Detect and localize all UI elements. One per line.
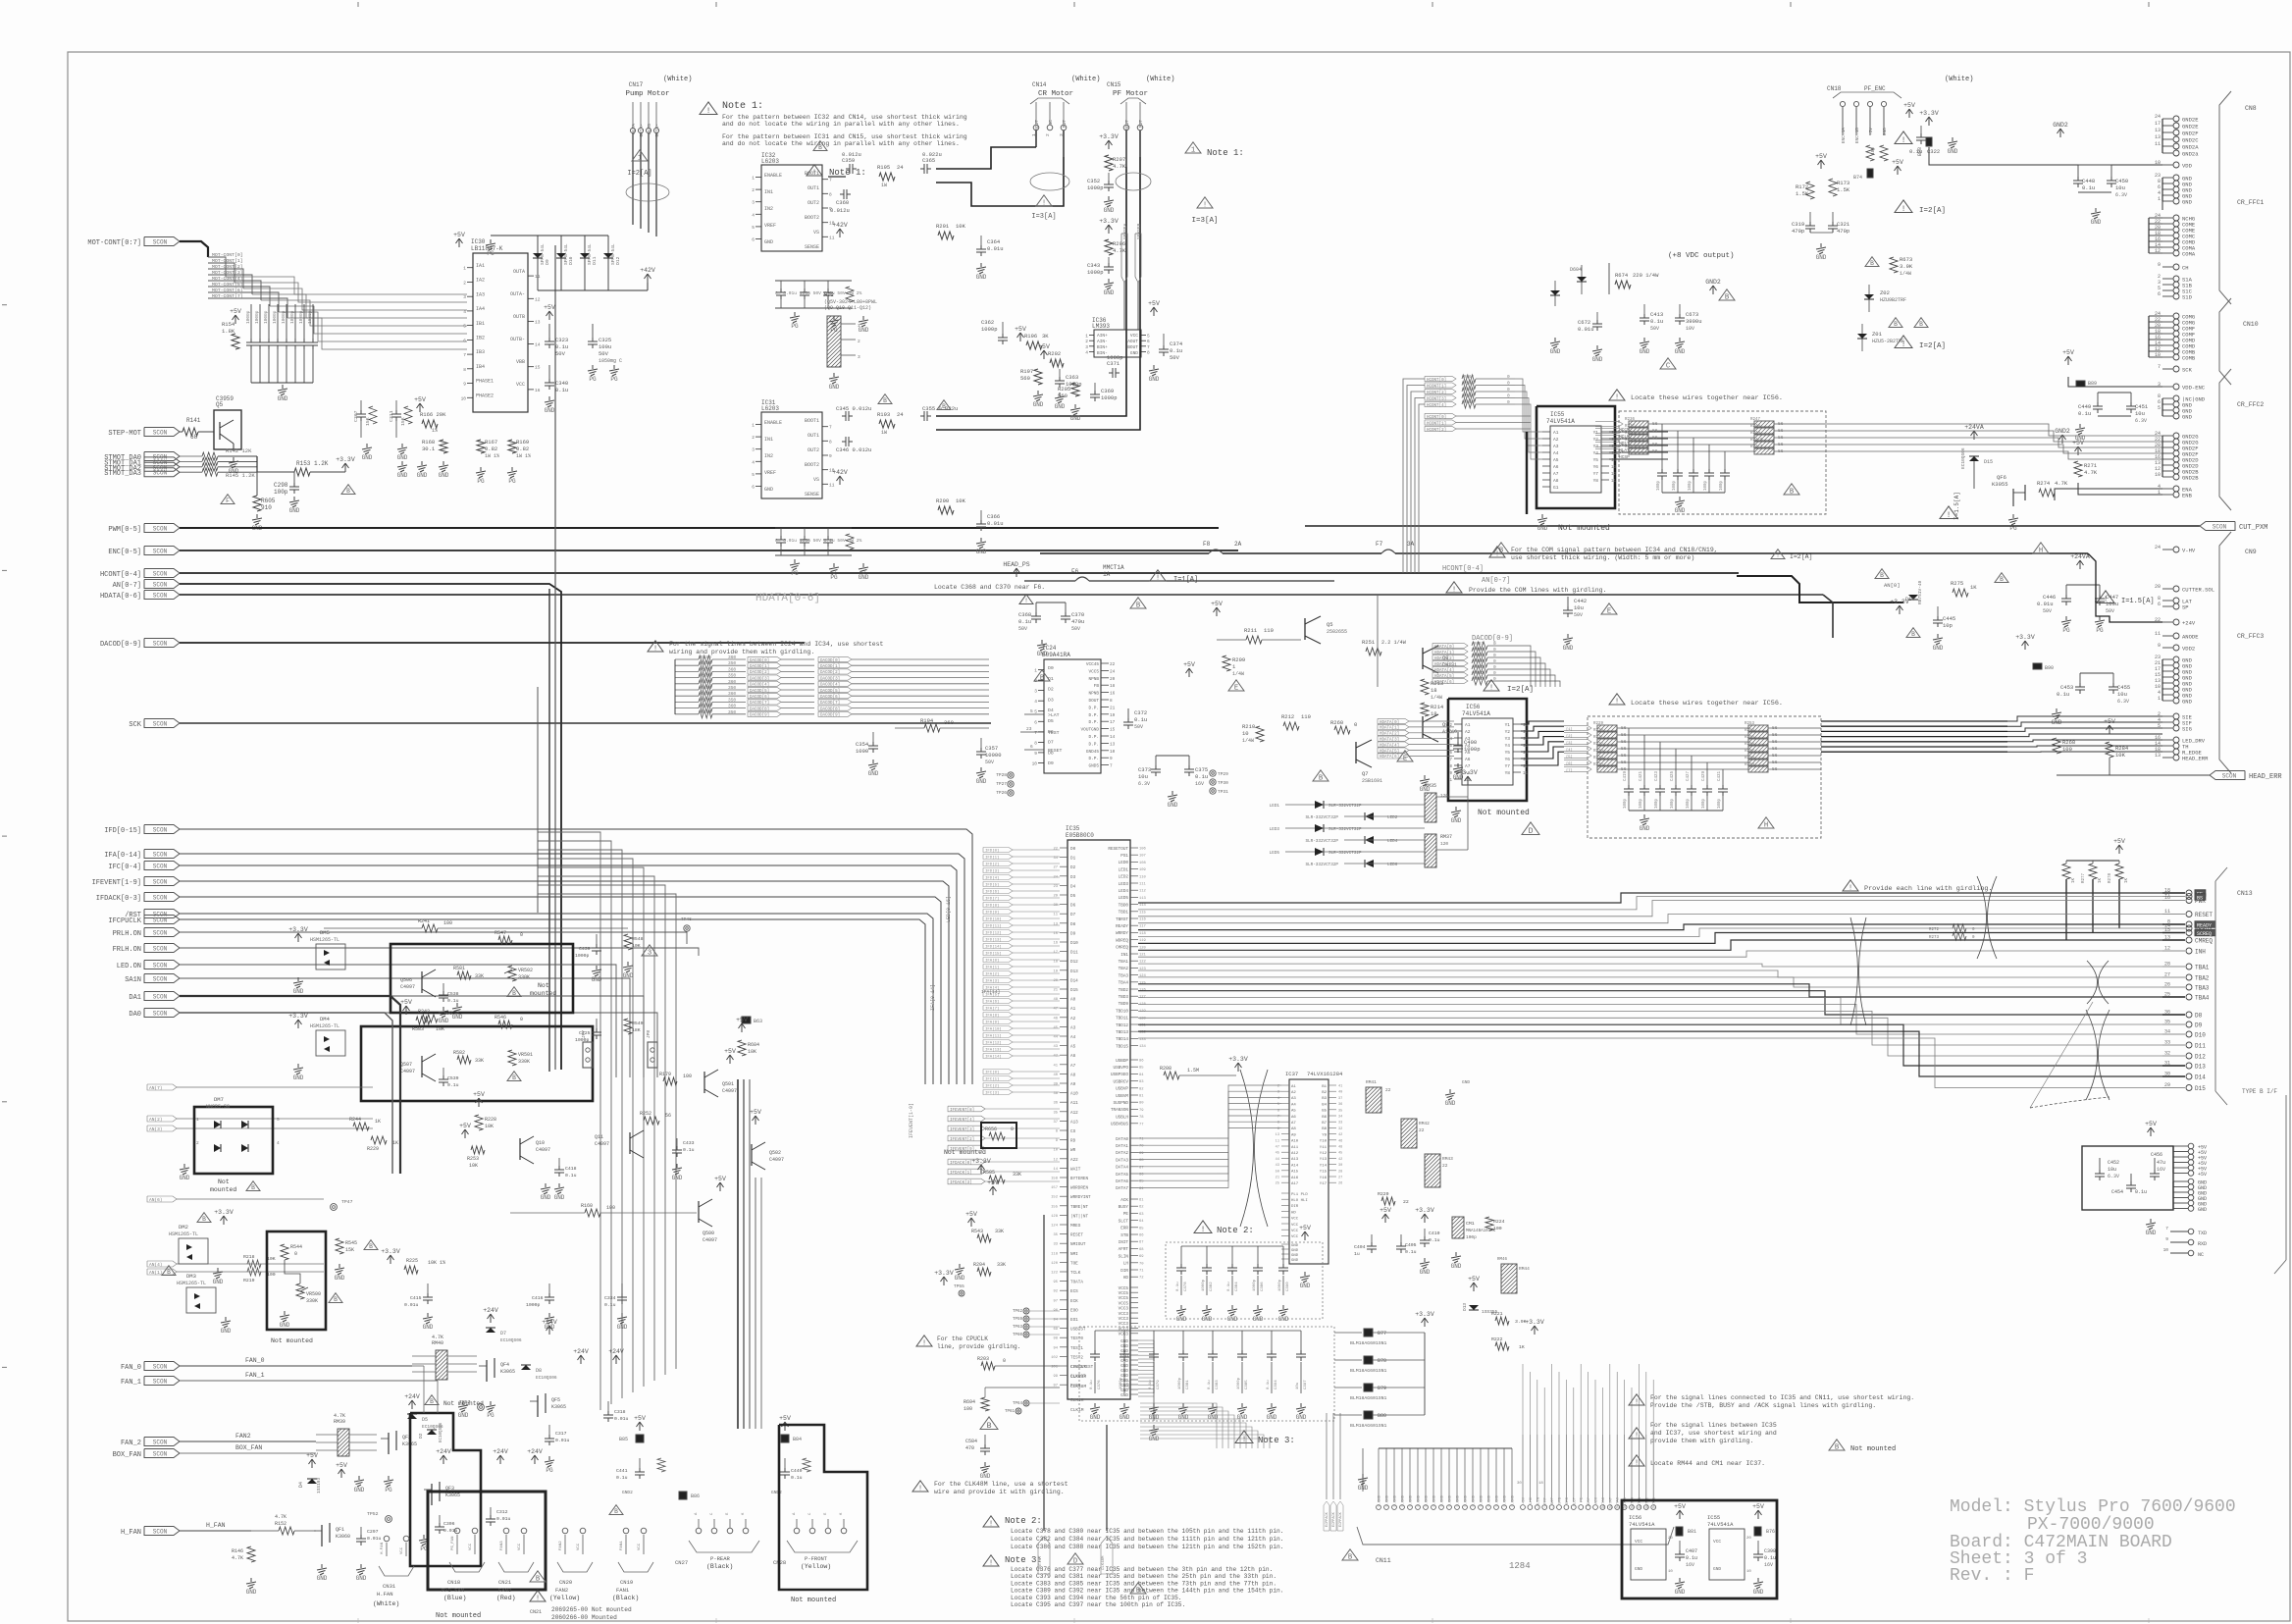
svg-text:D13: D13 — [1070, 969, 1078, 974]
svg-text:VDD: VDD — [2182, 163, 2193, 170]
capacitor C357 10000 50V — [980, 738, 982, 748]
svg-text:3: 3 — [648, 950, 651, 958]
svg-text:LED3: LED3 — [1270, 827, 1280, 832]
svg-text:IFA[1]: IFA[1] — [985, 966, 999, 970]
svg-text:GND2E: GND2E — [2182, 117, 2199, 124]
svg-text:C440: C440 — [791, 1468, 803, 1474]
svg-text:SCON: SCON — [153, 930, 168, 937]
svg-text:C448: C448 — [2082, 178, 2095, 184]
svg-text:LED2: LED2 — [1387, 815, 1398, 820]
svg-text:CN19: CN19 — [620, 1579, 633, 1586]
svg-text:LH0: LH0 — [1530, 1496, 1534, 1504]
svg-text:EC10QS06: EC10QS06 — [536, 1375, 557, 1381]
svg-text:158: 158 — [1051, 1178, 1059, 1181]
svg-text:GND: GND — [1090, 1414, 1101, 1421]
svg-text:GND: GND — [1296, 1414, 1307, 1421]
svg-text:D.P.: D.P. — [1088, 735, 1099, 740]
svg-text:R673: R673 — [1900, 256, 1912, 263]
svg-text:SCON: SCON — [153, 1379, 168, 1386]
svg-text:IA3: IA3 — [476, 291, 485, 297]
svg-text:4: 4 — [277, 1140, 280, 1146]
svg-text:TBA3: TBA3 — [1119, 973, 1129, 978]
svg-text:81: 81 — [1139, 1095, 1144, 1099]
svg-text:28: 28 — [1338, 1170, 1342, 1174]
svg-text:2502655: 2502655 — [1327, 629, 1347, 635]
svg-text:TRANSON: TRANSON — [1111, 1108, 1128, 1113]
svg-text:IFA[0]: IFA[0] — [985, 959, 999, 964]
wire IFDACK[0-3] bus — [180, 897, 941, 1084]
svg-text:A13: A13 — [1070, 1120, 1078, 1125]
svg-text:+5V: +5V — [714, 1176, 726, 1182]
svg-text:35: 35 — [1053, 1233, 1058, 1237]
svg-text:GND: GND — [1592, 356, 1603, 363]
svg-text:VDD-ENC: VDD-ENC — [2182, 385, 2206, 392]
svg-text:TP29: TP29 — [1218, 771, 1228, 777]
net ellipse I=3(A) PF — [1116, 173, 1151, 190]
svg-text:+5V: +5V — [736, 1017, 748, 1023]
svg-text:C425: C425 — [1671, 770, 1675, 781]
svg-text:10: 10 — [2163, 1247, 2169, 1253]
svg-text:IFD[11]: IFD[11] — [985, 924, 1002, 929]
svg-text:39: 39 — [1053, 1083, 1058, 1087]
svg-text:D4: D4 — [1070, 884, 1076, 889]
svg-text:D7: D7 — [500, 1331, 506, 1336]
svg-text:!: ! — [1776, 552, 1780, 559]
net HEAD_PS arrow — [1016, 569, 1017, 577]
svg-text:0.1u: 0.1u — [1764, 1555, 1776, 1561]
svg-text:A7: A7 — [1070, 1064, 1076, 1069]
svg-text:15: 15 — [535, 365, 541, 371]
resistor R206 4.7K + C343 1000p — [1105, 239, 1113, 255]
svg-text:R694: R694 — [964, 1399, 975, 1405]
warning triangle B in box A — [1784, 484, 1799, 495]
svg-text:112: 112 — [1139, 890, 1147, 894]
svg-text:33: 33 — [2164, 1040, 2170, 1046]
svg-text:A11: A11 — [1070, 1101, 1078, 1106]
svg-text:DACOD[1]: DACOD[1] — [750, 664, 769, 669]
svg-text:Locate these wires together ne: Locate these wires together near IC56. — [1631, 700, 1783, 707]
svg-text:22: 22 — [1419, 1127, 1425, 1133]
power +5V NMI — [992, 1187, 994, 1195]
svg-text:FAN2: FAN2 — [555, 1587, 568, 1594]
svg-text:DACOD[8]: DACOD[8] — [820, 707, 840, 711]
svg-text:P.GND: P.GND — [1433, 1494, 1437, 1506]
svg-text:HDATA[1]: HDATA[1] — [1434, 651, 1454, 655]
svg-text:CR_FFC1: CR_FFC1 — [2237, 199, 2264, 206]
svg-text:5: 5 — [1030, 708, 1033, 714]
svg-text:C364: C364 — [987, 238, 1001, 245]
svg-text:IFD[5]: IFD[5] — [985, 883, 999, 888]
svg-text:TBD1: TBD1 — [1119, 911, 1129, 916]
svg-text:FAN_1: FAN_1 — [245, 1372, 265, 1379]
svg-text:5: 5 — [752, 472, 755, 478]
svg-text:!: ! — [1615, 699, 1619, 707]
svg-text:DACOD[0]: DACOD[0] — [820, 658, 840, 663]
svg-text:C306: C306 — [443, 1521, 455, 1527]
svg-text:107: 107 — [1139, 855, 1146, 859]
svg-text:IA4: IA4 — [476, 306, 485, 312]
svg-text:111: 111 — [1139, 883, 1147, 887]
svg-text:!: ! — [1635, 1433, 1639, 1441]
note COM signal pattern — [1489, 547, 1505, 557]
wire AN bus — [180, 584, 561, 1070]
svg-text:CR_FFC2: CR_FFC2 — [2237, 401, 2264, 408]
svg-text:IC56: IC56 — [1629, 1514, 1641, 1521]
svg-text:R194: R194 — [920, 717, 934, 724]
capacitor C374 0.1u 50V — [1163, 334, 1165, 345]
svg-text:2: 2 — [196, 1140, 199, 1146]
transistor Q5 C3959 — [214, 410, 241, 449]
svg-text:VBB: VBB — [516, 359, 525, 365]
svg-text:DA0: DA0 — [129, 1011, 141, 1019]
svg-text:1284: 1284 — [1509, 1561, 1531, 1571]
svg-text:10K: 10K — [748, 1049, 756, 1055]
wire CN11 data bundle elbows — [1140, 1403, 1217, 1448]
svg-text:C370: C370 — [1071, 611, 1084, 618]
svg-text:TBD12: TBD12 — [1116, 1023, 1128, 1028]
svg-text:5: 5 — [277, 1117, 280, 1123]
svg-text:ECPPACK: ECPPACK — [1326, 1511, 1329, 1527]
svg-text:+5V: +5V — [459, 1123, 471, 1129]
svg-text:1W 1%: 1W 1% — [485, 453, 499, 459]
svg-text:3: 3 — [1034, 689, 1037, 695]
svg-text:IN1: IN1 — [764, 437, 773, 443]
capacitor C297 0.01u — [360, 1527, 362, 1535]
svg-text:Locate C395 and C397 near the: Locate C395 and C397 near the 100th pin … — [1011, 1601, 1185, 1608]
svg-text:DM3: DM3 — [186, 1273, 196, 1280]
svg-text:27: 27 — [2164, 972, 2170, 978]
capacitor C352 1000p — [1108, 173, 1110, 181]
svg-text:45: 45 — [1276, 1152, 1279, 1156]
svg-text:+5V: +5V — [1148, 300, 1160, 307]
svg-text:0.1u: 0.1u — [1405, 1249, 1417, 1255]
svg-text:HDATA[0-6]: HDATA[0-6] — [100, 593, 141, 601]
svg-text:TBA4: TBA4 — [2195, 995, 2210, 1002]
svg-text:152: 152 — [1051, 1196, 1059, 1200]
connector GND2G-GND2B pins — [2162, 435, 2173, 437]
svg-text:0: 0 — [1507, 374, 1510, 380]
capacitor C345 0.012u — [842, 415, 846, 417]
svg-text:OUTA: OUTA — [631, 124, 637, 134]
ground QF4 row — [462, 1401, 464, 1405]
svg-text:+3.3V: +3.3V — [288, 926, 308, 933]
svg-text:OUTB: OUTB — [647, 124, 652, 134]
resistor bank R664-R668 HCONT — [1425, 376, 1456, 381]
svg-text:1000p: 1000p — [1087, 269, 1104, 276]
ground C448 C450 — [2095, 208, 2097, 212]
svg-text:!: ! — [1901, 205, 1906, 214]
svg-text:SP: SP — [2182, 604, 2189, 611]
svg-text:1000: 1000 — [856, 748, 868, 755]
svg-text:R229: R229 — [1593, 722, 1604, 726]
svg-text:7: 7 — [2165, 1226, 2168, 1231]
svg-text:USBTST: USBTST — [1070, 1328, 1086, 1333]
resistor bank R657-R663 HDATA rows — [1432, 643, 1468, 648]
svg-text:For the signal lines between I: For the signal lines between IC35 — [1650, 1422, 1777, 1429]
svg-text:WRRDY: WRRDY — [1116, 931, 1128, 936]
svg-text:13: 13 — [1276, 1133, 1279, 1137]
svg-text:0.1u: 0.1u — [683, 1147, 695, 1153]
svg-text:+3.3V: +3.3V — [2015, 634, 2035, 641]
connector CN8 ground pins — [2162, 118, 2173, 120]
svg-text:VCC: VCC — [1635, 1539, 1642, 1545]
svg-text:Y8: Y8 — [1593, 478, 1599, 484]
svg-text:QF6: QF6 — [1997, 474, 2006, 481]
resistors R276 R277 R278 1K + +5V — [2118, 846, 2120, 854]
svg-text:1000p: 1000p — [526, 1302, 541, 1308]
note CLK48M girdling — [912, 1481, 928, 1492]
svg-text:82: 82 — [1139, 1087, 1144, 1091]
svg-text:Note 2:: Note 2: — [1217, 1226, 1254, 1235]
svg-text:+3.3V: +3.3V — [1228, 1056, 1248, 1063]
svg-text:HZU9B2TRF: HZU9B2TRF — [1880, 297, 1906, 303]
svg-text:C442: C442 — [1574, 598, 1587, 604]
svg-text:R2411: R2411 — [1750, 445, 1763, 449]
svg-text:100: 100 — [443, 1011, 452, 1017]
resistor R211 110 — [1246, 636, 1262, 644]
resistor R154 1.8K — [232, 334, 239, 349]
capacitor C539 0.1u — [443, 1068, 444, 1075]
svg-text:TP57: TP57 — [459, 1399, 471, 1405]
node LAT SP pins — [2162, 600, 2173, 602]
svg-text:F: F — [226, 498, 230, 504]
svg-text:(Q9-Q10-Q11-Q12): (Q9-Q10-Q11-Q12) — [824, 305, 871, 311]
svg-text:63: 63 — [1139, 1213, 1144, 1217]
svg-text:C405: C405 — [1405, 1242, 1417, 1248]
svg-text:110: 110 — [1301, 713, 1311, 720]
resistor R141 68 — [180, 431, 182, 433]
svg-text:6: 6 — [1147, 339, 1150, 344]
connector CR_FFC2 bracket — [2219, 369, 2231, 510]
svg-text:1W: 1W — [881, 430, 887, 436]
svg-text:50V: 50V — [1018, 626, 1027, 632]
resistor R201 10K + C364 — [938, 232, 954, 239]
svg-text:A8: A8 — [1553, 478, 1559, 484]
svg-text:GND: GND — [1753, 1589, 1764, 1596]
svg-text:(White): (White) — [1945, 76, 1973, 83]
connector CR_FFC3 bracket — [2219, 532, 2231, 773]
fet QF2 K3065 — [388, 1433, 390, 1454]
resistor R284 10K + +5V — [2109, 726, 2110, 734]
svg-text:PF Motor: PF Motor — [1113, 90, 1148, 98]
wire thick AN0 elbow feed — [1737, 576, 1903, 602]
svg-text:IFD[10]: IFD[10] — [985, 917, 1002, 922]
svg-text:1000p: 1000p — [1178, 1377, 1182, 1389]
svg-text:CLK48M: CLK48M — [1102, 1555, 1106, 1570]
svg-text:R212: R212 — [1281, 713, 1294, 720]
warning triangle B CLK — [980, 1417, 998, 1430]
svg-text:PG: PG — [791, 570, 799, 577]
svg-text:2A: 2A — [1234, 541, 1242, 548]
svg-text:D9: D9 — [1048, 760, 1054, 766]
wire IC55 outputs with labels — [1609, 431, 1668, 433]
svg-text:42: 42 — [1338, 1158, 1342, 1162]
svg-text:DACOD[1]: DACOD[1] — [820, 664, 840, 669]
svg-text:GND: GND — [397, 472, 408, 479]
svg-text:1.8K: 1.8K — [222, 328, 235, 335]
svg-text:D15: D15 — [1070, 988, 1078, 993]
power +5V VDD-ENC + B89 — [2067, 357, 2069, 365]
svg-text:IFCPUCLK: IFCPUCLK — [108, 917, 141, 925]
svg-text:B: B — [1725, 294, 1730, 302]
svg-text:NPNB: NPNB — [1088, 677, 1099, 682]
svg-text:12: 12 — [1523, 765, 1529, 769]
svg-text:1000p: 1000p — [307, 310, 313, 324]
svg-text:R258: R258 — [1745, 757, 1755, 760]
svg-text:MOT-CONT[7]: MOT-CONT[7] — [212, 293, 243, 299]
svg-text:84: 84 — [1139, 1074, 1144, 1077]
svg-text:GND: GND — [335, 1275, 345, 1282]
svg-text:R209: R209 — [1232, 656, 1245, 663]
svg-text:Locate C379 and C381 near IC35: Locate C379 and C381 near IC35 and betwe… — [1011, 1573, 1276, 1580]
svg-text:GND: GND — [623, 972, 634, 979]
svg-text:IC56: IC56 — [1466, 704, 1481, 710]
svg-text:62: 62 — [1139, 1206, 1144, 1210]
svg-text:MOT-CONT[1]: MOT-CONT[1] — [212, 258, 243, 264]
svg-text:56: 56 — [665, 1113, 671, 1119]
svg-text:OUT1: OUT1 — [807, 433, 819, 439]
svg-text:AN[0-7]: AN[0-7] — [1482, 577, 1510, 585]
svg-text:2069265-00 Not mounted: 2069265-00 Not mounted — [551, 1606, 632, 1613]
svg-text:12: 12 — [1611, 473, 1617, 477]
svg-text:C354: C354 — [856, 741, 869, 748]
svg-text:Y9: Y9 — [1322, 1133, 1327, 1137]
svg-text:100p: 100p — [1466, 1234, 1477, 1240]
svg-text:IC35: IC35 — [1066, 825, 1080, 832]
svg-text:5: 5 — [1147, 334, 1150, 340]
svg-text:C449: C449 — [2078, 403, 2091, 410]
svg-text:R544: R544 — [290, 1244, 302, 1250]
svg-text:B88: B88 — [1917, 147, 1923, 156]
svg-text:AN(2): AN(2) — [149, 1117, 163, 1123]
svg-text:470p: 470p — [1837, 228, 1849, 235]
svg-text:HEAD_ERR: HEAD_ERR — [2249, 773, 2282, 781]
node SCK pin — [2162, 368, 2173, 370]
svg-text:15: 15 — [1611, 452, 1617, 456]
svg-text:R208: R208 — [1160, 1066, 1172, 1072]
capacitor CM1 MNA14BA101RK 100p — [1452, 1217, 1464, 1238]
svg-text:I=2[A]: I=2[A] — [1919, 207, 1946, 215]
svg-text:+24V: +24V — [404, 1393, 420, 1400]
svg-text:72: 72 — [1139, 1277, 1144, 1281]
resistor network RM35 120 — [1425, 793, 1436, 822]
svg-text:R205: R205 — [1058, 386, 1070, 393]
svg-text:560: 560 — [1058, 393, 1068, 399]
svg-text:R183: R183 — [701, 673, 711, 679]
svg-text:15: 15 — [1110, 728, 1116, 733]
ground C368 — [1041, 640, 1043, 644]
svg-text:ANODE: ANODE — [2182, 634, 2199, 641]
wire IFD[0-15] bus — [180, 829, 972, 1084]
svg-text:42: 42 — [1053, 1055, 1058, 1059]
svg-text:1000p: 1000p — [281, 310, 286, 324]
svg-text:OUTB-: OUTB- — [510, 337, 525, 342]
svg-text:C397: C397 — [1304, 1380, 1308, 1389]
svg-text:VCC: VCC — [518, 1543, 522, 1550]
svg-text:line, provide girdling.: line, provide girdling. — [937, 1343, 1020, 1350]
power +3.3V LED — [1467, 777, 1469, 785]
node OUT_PXM exit tag — [1305, 525, 2200, 527]
svg-text:NC: NC — [2198, 1252, 2204, 1258]
svg-text:USBVPO: USBVPO — [1114, 1066, 1129, 1071]
svg-text:MRES: MRES — [1070, 1224, 1081, 1229]
svg-text:B81: B81 — [1688, 1529, 1696, 1535]
connector CN11 1284 parallel port — [1378, 1448, 1380, 1502]
svg-text:34: 34 — [1053, 857, 1058, 861]
svg-text:74LV541A: 74LV541A — [1462, 710, 1490, 717]
capacitor C584 470 — [984, 1435, 986, 1444]
ground below R605 — [256, 514, 258, 518]
IC35 right pin field upper — [1130, 847, 1138, 849]
svg-text:H.FAN: H.FAN — [377, 1591, 393, 1598]
svg-text:TP60: TP60 — [1013, 1334, 1023, 1337]
IFA input tags at IC35 — [983, 958, 1013, 963]
svg-text:C4097: C4097 — [722, 1088, 737, 1094]
svg-text:FRLH.ON: FRLH.ON — [113, 946, 141, 954]
hatch RM44 22 — [1501, 1264, 1517, 1293]
svg-text:26: 26 — [2164, 982, 2170, 988]
resistor R203 0 — [981, 1362, 995, 1370]
svg-text:30: 30 — [1053, 904, 1058, 908]
svg-text:Y13: Y13 — [1320, 1158, 1328, 1162]
svg-text:B63: B63 — [754, 1019, 762, 1024]
resistor R222 1K — [1495, 1342, 1509, 1350]
svg-text:DATA3: DATA3 — [1116, 1158, 1128, 1163]
svg-text:TEST2: TEST2 — [1070, 1355, 1083, 1360]
wire left bottom vertical trunks — [737, 1079, 739, 1429]
svg-text:!: ! — [922, 1340, 926, 1348]
svg-text:PS1: PS1 — [1120, 854, 1128, 859]
svg-text:IFD[9]: IFD[9] — [985, 911, 999, 916]
wire IC56 outputs to COM rows — [1521, 721, 1564, 724]
svg-text:SLCT: SLCT — [1573, 1496, 1577, 1506]
svg-text:100: 100 — [606, 1205, 615, 1211]
svg-text:(+8 VDC output): (+8 VDC output) — [1668, 252, 1735, 260]
svg-text:CN20: CN20 — [559, 1579, 572, 1586]
capacitor C372 0.1u 50V — [1127, 708, 1129, 718]
capacitor C400 1000p — [1457, 732, 1459, 742]
svg-text:R169: R169 — [516, 439, 529, 445]
wire nested elbow bundle into IC35 — [538, 832, 600, 1410]
svg-text:PG: PG — [546, 1467, 553, 1474]
svg-text:STB: STB — [1120, 1233, 1128, 1238]
svg-text:124: 124 — [1139, 974, 1147, 978]
svg-text:CH: CH — [2182, 265, 2189, 272]
svg-text:79: 79 — [1139, 1109, 1144, 1113]
svg-text:8: 8 — [463, 367, 466, 373]
svg-text:R196: R196 — [1024, 333, 1037, 340]
svg-text:R256: R256 — [1745, 743, 1755, 747]
svg-text:C419: C419 — [1624, 770, 1628, 781]
grounds C446 C447 — [2065, 616, 2067, 620]
svg-text:36: 36 — [1053, 1102, 1058, 1106]
svg-text:10: 10 — [2155, 472, 2161, 478]
wire FRLH.ON control line — [180, 948, 699, 956]
svg-text:R186: R186 — [701, 691, 711, 697]
svg-text:IFA[7]: IFA[7] — [985, 1007, 999, 1012]
svg-text:41: 41 — [1053, 1064, 1058, 1068]
svg-text:14: 14 — [1611, 459, 1617, 463]
svg-text:4.7K: 4.7K — [2055, 480, 2068, 487]
power +5V mid resistors — [419, 404, 421, 412]
svg-text:GND: GND — [1104, 207, 1115, 214]
svg-text:IB1: IB1 — [476, 321, 485, 327]
svg-text:C456: C456 — [2151, 1152, 2162, 1158]
svg-text:14: 14 — [535, 342, 541, 348]
svg-text:RESET: RESET — [1070, 1233, 1083, 1238]
svg-text:SA1N: SA1N — [125, 976, 141, 984]
box thick QF3 not mounted region — [410, 1413, 481, 1566]
